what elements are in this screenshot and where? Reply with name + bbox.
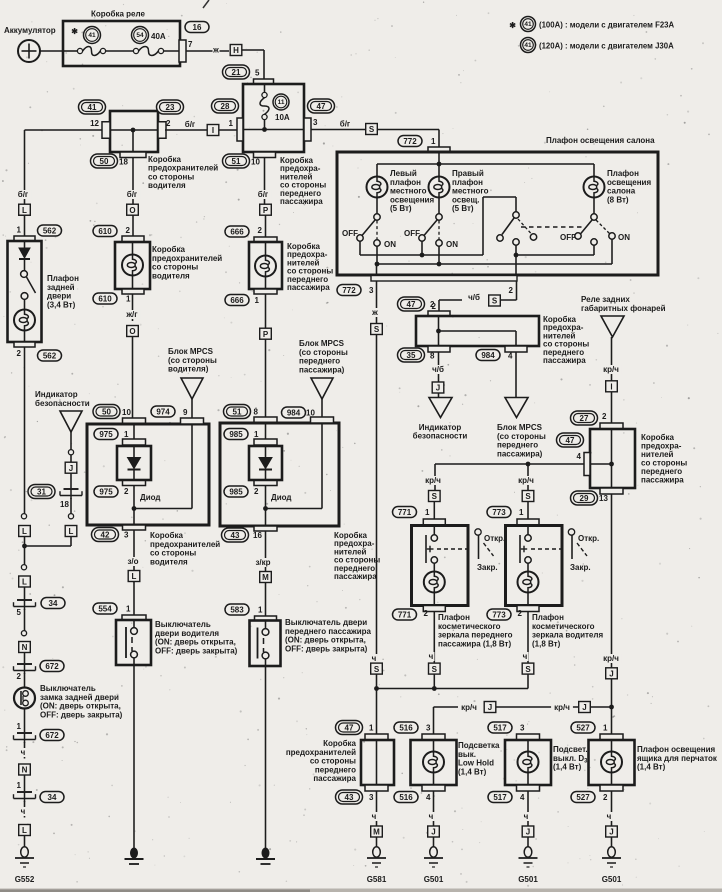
svg-text:Коробка: Коробка — [150, 531, 183, 540]
svg-text:2: 2 — [518, 609, 523, 618]
svg-text:41: 41 — [88, 103, 97, 112]
svg-text:L: L — [22, 527, 27, 536]
svg-text:водителя: водителя — [148, 181, 186, 190]
svg-text:1: 1 — [126, 605, 131, 614]
svg-text:10: 10 — [251, 158, 260, 167]
svg-text:ч: ч — [524, 812, 529, 821]
svg-text:з/кр: з/кр — [255, 558, 270, 567]
svg-text:18: 18 — [119, 158, 128, 167]
svg-text:Low Hold: Low Hold — [458, 759, 494, 768]
svg-text:ч: ч — [21, 748, 26, 757]
svg-text:Выключатель: Выключатель — [40, 684, 96, 693]
svg-text:б/г: б/г — [340, 120, 351, 129]
svg-text:б/г: б/г — [127, 190, 138, 199]
svg-text:N: N — [22, 766, 28, 775]
svg-text:Диод: Диод — [271, 493, 291, 502]
svg-text:J: J — [609, 670, 613, 679]
svg-text:ж/г: ж/г — [125, 310, 138, 319]
svg-text:47: 47 — [345, 723, 354, 732]
svg-text:предохранителей: предохранителей — [148, 164, 218, 173]
svg-text:(ON: дверь открыта,: (ON: дверь открыта, — [40, 702, 121, 711]
svg-text:J: J — [526, 828, 530, 837]
svg-text:1: 1 — [369, 724, 374, 733]
svg-text:ч: ч — [21, 807, 26, 816]
svg-text:1: 1 — [431, 137, 436, 146]
svg-text:S: S — [525, 665, 531, 674]
svg-text:I: I — [212, 126, 214, 135]
svg-text:M: M — [262, 573, 269, 582]
svg-text:2: 2 — [258, 226, 263, 235]
svg-text:985: 985 — [229, 430, 243, 439]
svg-text:(со стороны: (со стороны — [497, 432, 546, 441]
svg-text:Правый: Правый — [452, 169, 484, 178]
svg-text:1: 1 — [17, 722, 22, 731]
svg-text:зеркала водителя: зеркала водителя — [532, 631, 603, 640]
svg-text:Коробка: Коробка — [323, 739, 356, 748]
svg-text:1: 1 — [229, 119, 234, 128]
svg-text:Плафон: Плафон — [47, 274, 79, 283]
svg-text:ч: ч — [523, 652, 528, 661]
svg-text:1: 1 — [519, 508, 524, 517]
svg-text:OFF: дверь закрыта): OFF: дверь закрыта) — [285, 644, 368, 653]
svg-text:Блок MPCS: Блок MPCS — [497, 423, 543, 432]
svg-text:(5 Вт): (5 Вт) — [452, 204, 474, 213]
svg-text:OFF: OFF — [560, 233, 576, 242]
svg-text:Блок MPCS: Блок MPCS — [299, 339, 345, 348]
svg-text:✱: ✱ — [71, 27, 78, 36]
svg-text:габаритных фонарей: габаритных фонарей — [581, 304, 666, 313]
svg-text:Коробка: Коробка — [148, 155, 181, 164]
svg-text:610: 610 — [98, 294, 112, 303]
svg-text:43: 43 — [345, 793, 354, 802]
svg-text:21: 21 — [232, 68, 241, 77]
svg-text:773: 773 — [492, 610, 506, 619]
svg-text:4: 4 — [520, 793, 525, 802]
svg-text:вык.: вык. — [458, 750, 476, 759]
svg-text:P: P — [263, 206, 269, 215]
svg-text:L: L — [22, 826, 27, 835]
svg-text:б/г: б/г — [185, 120, 196, 129]
svg-text:водителя): водителя) — [168, 365, 209, 374]
svg-text:34: 34 — [49, 599, 58, 608]
svg-text:10A: 10A — [275, 113, 290, 122]
svg-text:Реле задних: Реле задних — [581, 295, 630, 304]
svg-text:8: 8 — [430, 352, 435, 361]
svg-text:985: 985 — [229, 487, 243, 496]
svg-text:13: 13 — [599, 494, 608, 503]
svg-text:Коробка реле: Коробка реле — [91, 10, 145, 19]
svg-text:ч/б: ч/б — [432, 365, 444, 374]
svg-text:H: H — [233, 46, 239, 55]
svg-text:пассажира): пассажира) — [497, 449, 543, 458]
svg-text:J: J — [582, 703, 586, 712]
svg-text:со стороны: со стороны — [150, 549, 196, 558]
svg-text:2: 2 — [166, 119, 171, 128]
svg-text:562: 562 — [43, 351, 57, 360]
svg-text:40A: 40A — [151, 32, 166, 41]
svg-text:(1,4 Вт): (1,4 Вт) — [553, 763, 582, 772]
svg-text:ON: ON — [618, 233, 630, 242]
svg-text:23: 23 — [166, 103, 175, 112]
svg-text:Блок MPCS: Блок MPCS — [168, 347, 214, 356]
svg-text:8: 8 — [254, 408, 259, 417]
svg-text:L: L — [69, 527, 74, 536]
svg-text:(120A) : модели с двигателем J: (120A) : модели с двигателем J30A — [539, 42, 674, 51]
svg-text:б/г: б/г — [258, 190, 269, 199]
svg-text:Подсветка: Подсветка — [458, 741, 500, 750]
svg-text:предохранителей: предохранителей — [286, 748, 356, 757]
svg-text:2: 2 — [254, 487, 259, 496]
svg-text:S: S — [492, 297, 498, 306]
svg-text:3: 3 — [426, 724, 431, 733]
svg-text:ж: ж — [371, 308, 378, 317]
svg-text:ч: ч — [429, 652, 434, 661]
svg-text:3: 3 — [369, 286, 374, 295]
svg-text:41: 41 — [524, 21, 532, 28]
svg-text:1: 1 — [126, 295, 131, 304]
svg-text:водителя: водителя — [152, 271, 190, 280]
svg-text:переднего: переднего — [497, 441, 538, 450]
svg-text:771: 771 — [398, 508, 412, 517]
svg-text:772: 772 — [342, 286, 356, 295]
svg-text:ON: ON — [446, 240, 458, 249]
svg-text:Плафон: Плафон — [438, 613, 470, 622]
svg-text:переднего: переднего — [315, 765, 356, 774]
svg-text:773: 773 — [492, 508, 506, 517]
svg-text:2: 2 — [603, 793, 608, 802]
svg-text:(100A) : модели с двигателем F: (100A) : модели с двигателем F23A — [539, 21, 675, 30]
svg-text:2: 2 — [430, 300, 435, 309]
svg-text:J: J — [609, 828, 613, 837]
svg-text:42: 42 — [101, 530, 110, 539]
svg-text:OFF: дверь закрыта): OFF: дверь закрыта) — [40, 710, 123, 719]
svg-text:27: 27 — [580, 414, 589, 423]
svg-text:S: S — [432, 665, 438, 674]
svg-text:кр/ч: кр/ч — [425, 476, 441, 485]
svg-text:517: 517 — [493, 793, 507, 802]
svg-text:47: 47 — [317, 102, 326, 111]
svg-text:Выключатель: Выключатель — [155, 620, 211, 629]
svg-text:S: S — [432, 492, 438, 501]
svg-text:1: 1 — [254, 430, 259, 439]
svg-text:3: 3 — [369, 793, 374, 802]
svg-text:1: 1 — [17, 226, 22, 235]
svg-text:S: S — [374, 325, 380, 334]
svg-text:Подсвет.: Подсвет. — [553, 745, 588, 754]
svg-text:517: 517 — [493, 723, 507, 732]
svg-text:51: 51 — [233, 407, 242, 416]
svg-text:Плафон: Плафон — [607, 169, 639, 178]
svg-text:освещения: освещения — [607, 178, 651, 187]
svg-text:1: 1 — [124, 430, 129, 439]
svg-text:28: 28 — [221, 102, 230, 111]
svg-text:554: 554 — [98, 604, 112, 613]
svg-text:Коробка: Коробка — [152, 245, 185, 254]
svg-text:(1,4 Вт): (1,4 Вт) — [637, 763, 666, 772]
svg-text:O: O — [129, 206, 135, 215]
svg-text:41: 41 — [524, 42, 532, 49]
svg-text:OFF: OFF — [342, 229, 358, 238]
svg-text:54: 54 — [136, 32, 144, 39]
svg-text:G501: G501 — [602, 875, 622, 884]
svg-text:583: 583 — [230, 605, 244, 614]
svg-text:S: S — [525, 492, 531, 501]
svg-text:16: 16 — [193, 23, 202, 32]
svg-text:Аккумулятор: Аккумулятор — [4, 26, 56, 35]
svg-text:4: 4 — [577, 452, 582, 461]
svg-text:G501: G501 — [518, 875, 538, 884]
svg-text:L: L — [132, 572, 137, 581]
svg-text:975: 975 — [99, 487, 113, 496]
svg-text:(ON: дверь открыта,: (ON: дверь открыта, — [285, 636, 366, 645]
svg-text:1: 1 — [17, 781, 22, 790]
svg-text:J: J — [436, 384, 440, 393]
svg-text:ON: ON — [384, 240, 396, 249]
svg-text:2: 2 — [17, 349, 22, 358]
svg-text:P: P — [263, 330, 269, 339]
svg-text:4: 4 — [426, 793, 431, 802]
svg-text:Плафон освещения: Плафон освещения — [637, 745, 716, 754]
svg-text:освещ.: освещ. — [452, 195, 479, 204]
svg-text:610: 610 — [98, 227, 112, 236]
svg-text:переднего пассажира: переднего пассажира — [285, 627, 372, 636]
svg-text:31: 31 — [37, 487, 46, 496]
svg-text:OFF: дверь закрыта): OFF: дверь закрыта) — [155, 646, 238, 655]
svg-text:527: 527 — [576, 723, 590, 732]
svg-text:ч: ч — [429, 812, 434, 821]
svg-text:(1,8 Вт): (1,8 Вт) — [532, 639, 561, 648]
svg-text:со стороны: со стороны — [152, 263, 198, 272]
svg-text:I: I — [610, 383, 612, 392]
svg-text:516: 516 — [399, 793, 413, 802]
svg-text:кр/ч: кр/ч — [518, 476, 534, 485]
svg-text:G552: G552 — [15, 875, 35, 884]
svg-text:S: S — [369, 125, 375, 134]
svg-text:водителя: водителя — [150, 557, 188, 566]
svg-text:со стороны: со стороны — [310, 757, 356, 766]
svg-text:2: 2 — [17, 672, 22, 681]
svg-text:34: 34 — [48, 793, 57, 802]
svg-text:кр/ч: кр/ч — [603, 654, 619, 663]
svg-text:772: 772 — [403, 137, 417, 146]
svg-text:3: 3 — [313, 118, 318, 127]
svg-text:J: J — [431, 828, 435, 837]
svg-text:975: 975 — [99, 430, 113, 439]
svg-text:51: 51 — [232, 157, 241, 166]
svg-text:984: 984 — [287, 408, 301, 417]
svg-text:47: 47 — [566, 436, 575, 445]
svg-text:Закр.: Закр. — [570, 563, 591, 572]
svg-text:двери водителя: двери водителя — [155, 629, 219, 638]
svg-text:пассажира: пассажира — [641, 476, 684, 485]
svg-text:замка задней двери: замка задней двери — [40, 693, 119, 702]
svg-text:974: 974 — [156, 407, 170, 416]
svg-text:984: 984 — [481, 351, 495, 360]
svg-text:L: L — [22, 578, 27, 587]
svg-text:ч: ч — [372, 654, 377, 663]
svg-text:29: 29 — [580, 494, 589, 503]
svg-text:1: 1 — [258, 606, 263, 615]
svg-text:516: 516 — [399, 723, 413, 732]
svg-text:(8 Вт): (8 Вт) — [607, 195, 629, 204]
svg-text:ч/б: ч/б — [468, 293, 480, 302]
svg-text:пассажира (1,8 Вт): пассажира (1,8 Вт) — [438, 639, 511, 648]
svg-text:Выключатель двери: Выключатель двери — [285, 618, 367, 627]
svg-text:(со стороны: (со стороны — [299, 348, 348, 357]
svg-text:771: 771 — [398, 610, 412, 619]
svg-text:Закр.: Закр. — [477, 563, 498, 572]
svg-text:666: 666 — [230, 227, 244, 236]
svg-text:плафон: плафон — [390, 178, 421, 187]
svg-text:предохранителей: предохранителей — [150, 540, 220, 549]
svg-text:672: 672 — [45, 662, 59, 671]
svg-text:ящика для перчаток: ящика для перчаток — [637, 754, 718, 763]
svg-text:зеркала переднего: зеркала переднего — [438, 631, 513, 640]
svg-text:местного: местного — [390, 187, 427, 196]
svg-text:12: 12 — [90, 119, 99, 128]
svg-text:пассажира): пассажира) — [299, 365, 345, 374]
svg-text:пассажира: пассажира — [280, 197, 323, 206]
svg-text:(со стороны: (со стороны — [168, 356, 217, 365]
svg-text:✱: ✱ — [509, 21, 516, 30]
svg-text:двери: двери — [47, 292, 71, 301]
svg-text:пассажира: пассажира — [334, 572, 377, 581]
svg-text:2: 2 — [424, 609, 429, 618]
svg-text:5: 5 — [17, 608, 22, 617]
svg-text:O: O — [129, 327, 135, 336]
svg-text:ж: ж — [212, 46, 219, 55]
svg-text:10: 10 — [306, 409, 315, 418]
svg-text:G581: G581 — [367, 875, 387, 884]
svg-text:б/г: б/г — [18, 190, 29, 199]
svg-text:9: 9 — [183, 408, 188, 417]
svg-text:4: 4 — [508, 352, 513, 361]
svg-text:кр/ч: кр/ч — [554, 703, 570, 712]
svg-text:S: S — [374, 665, 380, 674]
svg-text:2: 2 — [124, 487, 129, 496]
svg-text:50: 50 — [102, 407, 111, 416]
svg-text:безопасности: безопасности — [413, 432, 468, 441]
svg-text:Индикатор: Индикатор — [419, 423, 462, 432]
svg-text:M: M — [373, 828, 380, 837]
svg-text:2: 2 — [602, 412, 607, 421]
svg-text:1: 1 — [425, 508, 430, 517]
svg-text:Индикатор: Индикатор — [35, 390, 78, 399]
svg-text:527: 527 — [576, 793, 590, 802]
svg-text:косметического: косметического — [438, 622, 501, 631]
svg-text:Диод: Диод — [140, 493, 160, 502]
svg-text:ч: ч — [372, 812, 377, 821]
svg-text:11: 11 — [278, 99, 285, 106]
svg-text:7: 7 — [188, 40, 193, 49]
svg-text:(ON: дверь открыта,: (ON: дверь открыта, — [155, 638, 236, 647]
svg-text:5: 5 — [255, 69, 260, 78]
svg-text:50: 50 — [100, 157, 109, 166]
svg-text:салона: салона — [607, 187, 636, 196]
svg-text:1: 1 — [255, 296, 260, 305]
svg-text:кр/ч: кр/ч — [603, 365, 619, 374]
svg-text:N: N — [22, 643, 28, 652]
svg-text:L: L — [22, 206, 27, 215]
svg-text:з/о: з/о — [127, 557, 138, 566]
svg-text:18: 18 — [60, 500, 69, 509]
svg-text:пассажира: пассажира — [287, 283, 330, 292]
svg-text:2: 2 — [509, 286, 514, 295]
svg-text:16: 16 — [253, 531, 262, 540]
svg-text:пассажира: пассажира — [543, 356, 586, 365]
svg-text:Левый: Левый — [390, 169, 417, 178]
svg-text:пассажира: пассажира — [313, 774, 356, 783]
svg-text:со стороны: со стороны — [148, 172, 194, 181]
svg-text:10: 10 — [122, 408, 131, 417]
svg-text:3: 3 — [124, 531, 129, 540]
svg-text:35: 35 — [407, 351, 416, 360]
svg-text:G501: G501 — [424, 875, 444, 884]
svg-text:переднего: переднего — [299, 357, 340, 366]
svg-text:(3,4 Вт): (3,4 Вт) — [47, 300, 76, 309]
svg-text:(5 Вт): (5 Вт) — [390, 204, 412, 213]
svg-text:47: 47 — [407, 300, 416, 309]
svg-text:Откр.: Откр. — [484, 534, 505, 543]
svg-text:1: 1 — [603, 724, 608, 733]
svg-text:Плафон освещения салона: Плафон освещения салона — [546, 136, 655, 145]
svg-text:41: 41 — [88, 32, 96, 39]
svg-text:кр/ч: кр/ч — [461, 703, 477, 712]
svg-text:562: 562 — [43, 226, 57, 235]
svg-text:безопасности: безопасности — [35, 399, 90, 408]
svg-text:672: 672 — [45, 731, 59, 740]
svg-text:(1,4 Вт): (1,4 Вт) — [458, 767, 487, 776]
svg-text:J: J — [488, 703, 492, 712]
svg-text:666: 666 — [230, 296, 244, 305]
svg-text:местного: местного — [452, 187, 489, 196]
svg-text:2: 2 — [126, 226, 131, 235]
svg-text:Откр.: Откр. — [578, 534, 599, 543]
svg-text:предохранителей: предохранителей — [152, 254, 222, 263]
svg-text:плафон: плафон — [452, 178, 483, 187]
svg-text:Плафон: Плафон — [532, 613, 564, 622]
svg-text:43: 43 — [231, 531, 240, 540]
svg-text:ч: ч — [607, 812, 612, 821]
svg-text:задней: задней — [47, 283, 75, 292]
svg-text:J: J — [69, 464, 73, 473]
svg-text:освещения: освещения — [390, 195, 434, 204]
svg-text:3: 3 — [520, 724, 525, 733]
svg-text:OFF: OFF — [404, 229, 420, 238]
svg-text:косметического: косметического — [532, 622, 595, 631]
